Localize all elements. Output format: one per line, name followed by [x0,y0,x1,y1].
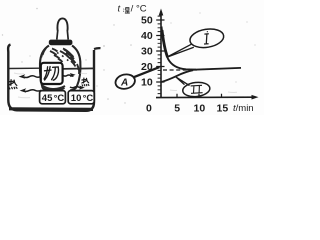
svg-text:/: / [131,4,134,15]
beaker [8,45,100,111]
svg-text:10: 10 [71,93,82,104]
curve i (cooling, milk) [162,27,197,70]
x-axis ticks [177,94,222,98]
heat wavy arrow right upper [63,73,76,77]
x-axis [156,95,259,100]
heat wavy arrow left lower [20,88,42,93]
bottle neck [57,30,68,40]
bottle glint dots [57,53,68,61]
svg-text:5: 5 [174,103,180,115]
svg-text:A: A [120,78,128,89]
character 奶 [44,67,58,81]
svg-text:15: 15 [217,103,229,115]
svg-text:40: 40 [141,30,153,42]
svg-text:°C: °C [136,4,147,15]
svg-text:t: t [118,4,121,15]
svg-text:0: 0 [146,103,152,115]
curve i steep emphasis [162,30,168,57]
svg-text:°C: °C [54,93,65,104]
label box 10°C [68,91,94,104]
svg-text:45: 45 [42,93,53,104]
svg-text:°C: °C [83,93,94,104]
callout ellipse i [189,27,225,50]
bottle body [40,46,80,91]
water surface line left [10,67,42,69]
callout ellipse A [114,73,136,91]
curve ii (warming, water) [162,70,194,82]
callout leader A [133,67,160,78]
y-axis [159,9,164,98]
faint scan smudges [14,73,237,98]
character 热 left [9,80,17,89]
bottle bottom shading blob [42,86,65,92]
svg-text:t/min: t/min [233,103,254,114]
y-axis minor ticks [158,16,162,94]
y-axis title t温/°C [118,4,147,15]
milk box (奶) [41,63,63,84]
heat wavy arrow left upper [19,74,41,79]
bottle nipple [57,18,67,30]
bottle shading scribbles [41,48,79,74]
callout ellipse ii [182,81,211,98]
y-axis labels [141,15,153,89]
heat wavy arrow right lower [70,86,85,90]
x-axis labels [174,103,228,115]
water surface line right [63,67,94,70]
label box 45°C [40,91,66,104]
scan noise specks [2,8,256,104]
svg-text:10: 10 [194,103,206,115]
callout leader ii [176,77,190,86]
callout leader i [167,44,194,57]
y-axis major ticks [156,20,164,82]
merged equilibrium line [191,68,241,70]
svg-text:50: 50 [141,15,153,27]
dashed asymptote at 20 [163,69,197,71]
character 热 right [82,78,89,86]
svg-text:30: 30 [141,46,153,58]
svg-text:10: 10 [141,77,153,89]
bottle collar ring [49,40,73,46]
